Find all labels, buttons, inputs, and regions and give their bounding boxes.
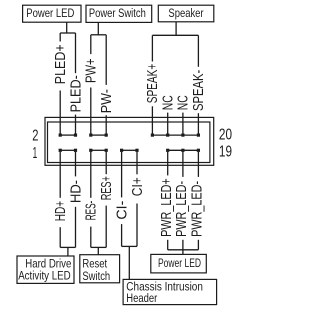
- svg-text:RES+: RES+: [99, 176, 115, 200]
- wire SPEAK- upper: [197, 35, 199, 67]
- wire stem from Power LED box: [66, 22, 68, 33]
- pin 2 (top row): [59, 134, 62, 137]
- svg-text:CI+: CI+: [130, 177, 146, 196]
- bracket PW pair: [91, 34, 106, 36]
- wire stem to Hard Drive Activity LED box: [67, 247, 69, 256]
- wire pin 19 to PWR_LED- label: [197, 152, 199, 177]
- svg-text:PLED+: PLED+: [53, 44, 69, 84]
- pin 5 (bottom row): [89, 149, 92, 152]
- wire pin 3 to HD- label: [75, 152, 77, 177]
- svg-text:Speaker: Speaker: [168, 6, 203, 20]
- wire stem from Power Switch box: [97, 22, 99, 34]
- box "Speaker": [158, 5, 214, 22]
- pin 17 (bottom row): [181, 149, 184, 152]
- bracket PLED pair: [60, 32, 75, 34]
- pin 14 (top row): [151, 134, 154, 137]
- svg-text:1: 1: [33, 145, 38, 162]
- wire NC to pin 16: [167, 113, 169, 136]
- wire PWR_LED- stem to Power LED box: [182, 240, 184, 255]
- svg-text:PWR_LED+: PWR_LED+: [159, 178, 175, 237]
- plug bridge pins 1-3: [60, 149, 75, 151]
- pin 20 (top row): [197, 134, 200, 137]
- wire pin 5 to RES- label: [90, 152, 92, 198]
- svg-text:SPEAK-: SPEAK-: [191, 70, 207, 111]
- svg-text:2: 2: [32, 128, 38, 145]
- svg-text:Switch: Switch: [82, 269, 110, 283]
- bracket HD pair: [60, 246, 75, 248]
- svg-text:HD-: HD-: [68, 180, 84, 203]
- wire NC to pin 18: [182, 113, 184, 136]
- svg-text:Activity LED: Activity LED: [18, 268, 71, 282]
- plug bridge pins 14-20: [152, 134, 198, 136]
- wire pin 9 to CI- label: [121, 152, 123, 198]
- pin 8 (top row): [105, 134, 108, 137]
- plug bridge pins 5-7: [91, 149, 106, 151]
- wire PW+ upper stub: [90, 35, 92, 54]
- wire pin 11 to CI+ label: [136, 152, 138, 175]
- pin 19 (bottom row): [197, 149, 200, 152]
- wire pin 7 to RES+ label: [105, 152, 107, 174]
- svg-text:RES-: RES-: [84, 201, 100, 221]
- pin 4 (top row): [74, 134, 77, 137]
- wire HD- to bracket: [75, 207, 77, 248]
- svg-text:NC: NC: [161, 95, 177, 110]
- wire stem to Chassis Intrusion Header box: [128, 246, 130, 279]
- connector F_PANEL inner outline: [48, 122, 210, 163]
- wire RES+ to bracket: [105, 206, 107, 248]
- plug bridge pins 6-8: [91, 134, 106, 136]
- bracket RES pair: [91, 246, 106, 248]
- svg-text:19: 19: [219, 144, 232, 161]
- wire PW- to pin 8: [105, 115, 107, 135]
- svg-text:NC: NC: [176, 95, 192, 110]
- pin 3 (bottom row): [74, 149, 77, 152]
- svg-text:PWR_LED-: PWR_LED-: [174, 181, 190, 237]
- box "Reset Switch": [80, 255, 120, 283]
- svg-text:PWR_LED-: PWR_LED-: [190, 181, 206, 237]
- wire PLED+ upper stub: [59, 33, 61, 42]
- wire PW+ to pin 6: [90, 88, 92, 136]
- wire SPEAK+ upper: [151, 35, 153, 61]
- pin 9 (bottom row): [120, 149, 123, 152]
- plug bridge pins 9-11: [122, 149, 137, 151]
- wire pin 1 to HD+ label: [59, 152, 61, 198]
- svg-text:PW-: PW-: [99, 89, 115, 113]
- svg-text:HD+: HD+: [53, 201, 69, 221]
- svg-text:SPEAK+: SPEAK+: [145, 64, 161, 104]
- svg-text:PLED-: PLED-: [68, 75, 84, 112]
- svg-text:Header: Header: [126, 291, 157, 305]
- pin 6 (top row): [89, 134, 92, 137]
- wire pin 17 to PWR_LED- label: [182, 152, 184, 177]
- box "Hard Drive Activity LED": [17, 256, 74, 283]
- wire SPEAK+ to pin 14: [151, 106, 153, 135]
- wire stem from Speaker box: [175, 22, 177, 36]
- svg-text:20: 20: [219, 127, 232, 144]
- pin 16 (top row): [166, 134, 169, 137]
- connector F_PANEL outer outline: [45, 117, 214, 165]
- wire PLED+ to pin 2: [59, 91, 61, 136]
- box "Chassis Intrusion Header": [123, 279, 217, 304]
- svg-text:Power LED: Power LED: [26, 6, 74, 20]
- wire PWR_LED+ to bracket: [167, 240, 169, 250]
- wire CI- to bracket: [121, 224, 123, 246]
- wire PW- upper: [105, 35, 107, 85]
- svg-text:Power LED: Power LED: [158, 256, 201, 270]
- pin 1 (bottom row): [59, 149, 62, 152]
- wire pin 15 to PWR_LED+ label: [167, 152, 169, 176]
- plug bridge pins 15-19: [168, 149, 199, 151]
- wire PLED- to pin 4: [75, 115, 77, 136]
- bracket CI pair: [122, 245, 137, 247]
- box "Power Switch": [86, 5, 152, 22]
- pin 18 (top row): [181, 134, 184, 137]
- svg-text:Power Switch: Power Switch: [89, 6, 146, 20]
- wire RES- to bracket: [90, 227, 92, 248]
- box "Power LED" (bottom): [151, 254, 207, 273]
- wire PWR_LED- to bracket: [197, 240, 199, 250]
- pin 7 (bottom row): [105, 149, 108, 152]
- wire stem to Reset Switch box: [97, 247, 99, 255]
- pin 11 (bottom row): [135, 149, 138, 152]
- svg-text:CI-: CI-: [114, 201, 130, 220]
- bracket PWR_LED group: [168, 249, 199, 251]
- box "Power LED" (top): [23, 5, 81, 22]
- wire PLED- upper: [75, 33, 77, 73]
- wire SPEAK- to pin 20: [197, 113, 199, 135]
- wire HD+ to bracket: [59, 227, 61, 247]
- bracket SPEAK group: [152, 34, 198, 36]
- svg-text:PW+: PW+: [84, 58, 100, 83]
- wire CI+ to bracket: [136, 204, 138, 247]
- pin 15 (bottom row): [166, 149, 169, 152]
- plug bridge pins 2-4: [60, 134, 75, 136]
